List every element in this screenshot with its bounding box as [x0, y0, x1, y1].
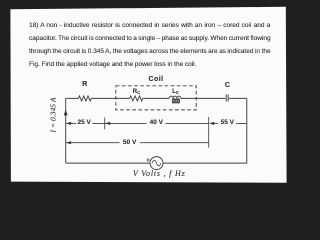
wire top — [66, 98, 247, 163]
resistor Rc label — [133, 89, 140, 96]
dimension arrows row1 — [66, 122, 218, 125]
capacitor C — [226, 95, 228, 102]
dimension arrows row2 — [66, 141, 71, 144]
wire right — [246, 98, 248, 163]
resistor Rc — [130, 96, 143, 101]
plus sign — [146, 158, 149, 161]
dimension line 25/40/55 — [66, 122, 247, 124]
resistor R label — [82, 81, 87, 88]
question text line 3 — [29, 49, 271, 56]
coil dashed box — [116, 86, 196, 110]
current label I = 0.345 A — [49, 97, 57, 132]
capacitor C label — [225, 82, 230, 89]
page — [10, 7, 286, 183]
label 50 V — [123, 140, 136, 147]
ac source — [150, 157, 163, 170]
question text line 1 — [29, 23, 270, 30]
question text line 2 — [29, 36, 271, 43]
tick between 25V and 40V — [104, 118, 106, 130]
label 40 V — [150, 120, 163, 127]
current arrow — [64, 110, 68, 116]
coil box label — [148, 76, 163, 83]
label 25 V — [78, 120, 91, 127]
wire left — [65, 98, 67, 163]
question text line 4 — [29, 62, 196, 69]
inductor Lc — [169, 96, 181, 103]
ac sine — [152, 160, 161, 166]
dimension line 50 — [66, 142, 209, 144]
inductor Lc label — [172, 89, 179, 96]
resistor R — [78, 96, 91, 101]
tick between 40V and 55V (long, shared with 50V) — [208, 117, 210, 148]
wire bottom — [66, 162, 247, 164]
label 55 V — [221, 120, 234, 127]
source label V Volts f Hz — [133, 170, 186, 178]
